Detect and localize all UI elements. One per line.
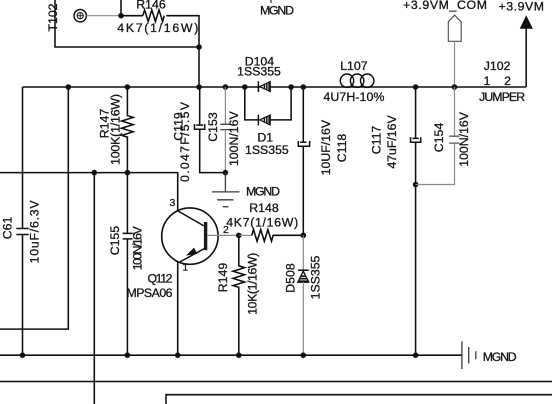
node junction at 127.4,355.2 xyxy=(125,352,131,358)
svg-text:100K(1/16W): 100K(1/16W) xyxy=(108,94,122,165)
node junction at 121,15.7 xyxy=(118,13,124,19)
node junction at 415.6,184.5 xyxy=(413,182,419,188)
net label +3.9VM xyxy=(499,0,545,13)
node junction at 225.4,87 xyxy=(223,84,229,90)
capacitor C61 xyxy=(1,87,42,355)
power flag +3.9VM_COM pentagon xyxy=(448,15,461,87)
wire top stub at x=121 xyxy=(120,0,122,16)
svg-text:L107: L107 xyxy=(340,59,368,73)
transistor Q112 xyxy=(127,197,229,300)
svg-text:3: 3 xyxy=(169,197,175,209)
power arrow +3.9VM xyxy=(520,15,533,87)
bottom bus wire y=355.2 xyxy=(0,354,462,356)
main bus wire y=87 xyxy=(23,86,527,88)
svg-text:D508: D508 xyxy=(284,263,298,293)
resistor R148 xyxy=(226,201,303,241)
node junction at 94.3,172.6 xyxy=(92,170,98,176)
node junction at 244.8,87 xyxy=(242,84,248,90)
svg-text:R149: R149 xyxy=(216,263,230,293)
resistor R146 xyxy=(117,0,198,35)
terminal jack circle xyxy=(74,10,86,22)
svg-text:10uF/6.3V: 10uF/6.3V xyxy=(27,200,41,264)
svg-text:T102: T102 xyxy=(46,3,60,31)
svg-text:J102: J102 xyxy=(484,59,511,73)
svg-text:+3.9VM: +3.9VM xyxy=(499,0,545,13)
svg-text:4U7H-10%: 4U7H-10% xyxy=(323,90,384,104)
node junction at 177.7,355.2 xyxy=(175,352,181,358)
node junction at 22.5,355.2 xyxy=(20,352,26,358)
capacitor C155 xyxy=(108,173,144,356)
svg-text:C154: C154 xyxy=(432,123,446,153)
wire bottom rail y=381.5 xyxy=(0,381,552,383)
svg-text:MGND: MGND xyxy=(246,185,280,199)
svg-text:1: 1 xyxy=(483,74,490,88)
node junction at 454.5,87 xyxy=(452,84,458,90)
wire terminal to node xyxy=(86,15,121,17)
transformer/terminal T102 label xyxy=(46,3,60,31)
svg-text:JUMPER: JUMPER xyxy=(479,90,525,104)
wire base to node xyxy=(207,234,239,236)
capacitor C117 xyxy=(370,87,421,355)
svg-text:4K7(1/16W): 4K7(1/16W) xyxy=(226,216,298,230)
svg-text:10K(1/16W): 10K(1/16W) xyxy=(245,253,259,315)
svg-text:0.047F/5.5V: 0.047F/5.5V xyxy=(178,101,192,182)
wire vertical x=94.3 xyxy=(93,173,95,404)
svg-text:MGND: MGND xyxy=(483,350,517,364)
jumper J102 xyxy=(479,59,525,104)
capacitor C154 xyxy=(416,87,471,185)
svg-text:10UF/16V: 10UF/16V xyxy=(319,119,333,175)
svg-text:2: 2 xyxy=(504,74,511,88)
svg-text:+3.9VM_COM: +3.9VM_COM xyxy=(403,0,487,12)
node junction at 238.8,355.2 xyxy=(236,352,242,358)
node junction at 225.4,172.6 xyxy=(223,170,229,176)
wire emitter down xyxy=(177,262,179,356)
ground MGND top stub xyxy=(260,0,294,18)
resistor R149 xyxy=(216,235,260,355)
node junction at 415.6,87 xyxy=(413,84,419,90)
svg-text:R146: R146 xyxy=(136,0,166,11)
svg-text:4K7(1/16W): 4K7(1/16W) xyxy=(117,21,198,35)
svg-text:R148: R148 xyxy=(249,201,279,215)
capacitor C118 xyxy=(298,87,349,235)
node junction at 199,87 xyxy=(196,84,202,90)
inductor L107 xyxy=(323,59,384,104)
node junction at 127.4,172.6 xyxy=(125,170,131,176)
diode D104 xyxy=(237,54,281,92)
svg-text:100N/16V: 100N/16V xyxy=(131,226,145,271)
node junction at 303.3,87 xyxy=(301,84,307,90)
node junction at 199,47 xyxy=(196,44,202,50)
svg-text:1SS355: 1SS355 xyxy=(309,255,323,299)
node junction at 127.4,87 xyxy=(125,84,131,90)
svg-text:100N/16V: 100N/16V xyxy=(227,111,241,166)
diode D508 xyxy=(284,235,323,355)
node junction at 303.3,235.4 xyxy=(301,233,307,239)
wire x=68.3 down and left xyxy=(0,87,68,329)
svg-text:100N/16V: 100N/16V xyxy=(457,111,471,166)
svg-text:1: 1 xyxy=(182,261,188,273)
node junction at 415.6,355.2 xyxy=(413,352,419,358)
svg-text:C155: C155 xyxy=(108,226,122,256)
svg-text:47uF/16V: 47uF/16V xyxy=(385,115,399,169)
ground MGND right xyxy=(462,341,517,369)
node junction at 238.8,235.4 xyxy=(236,233,242,239)
wire rail y=172.6 to collector xyxy=(0,173,178,211)
net label +3.9VM_COM xyxy=(403,0,487,12)
svg-text:C153: C153 xyxy=(206,112,220,142)
wire R146 to corner xyxy=(166,16,199,87)
svg-text:MPSA06: MPSA06 xyxy=(127,286,173,300)
capacitor C153 xyxy=(206,87,241,173)
node junction at 68.3,87 xyxy=(66,84,72,90)
svg-text:Q112: Q112 xyxy=(148,271,173,285)
wire T102 left leg xyxy=(55,0,199,47)
wire node to R146 xyxy=(121,15,143,17)
diode D1 with loop wires xyxy=(245,87,291,157)
ground MGND middle xyxy=(212,173,280,207)
node junction at 303.3,355.2 xyxy=(301,352,307,358)
svg-text:1SS355: 1SS355 xyxy=(245,143,289,157)
wire bottom box outline xyxy=(166,395,552,404)
svg-text:1SS355: 1SS355 xyxy=(237,65,281,79)
node junction at 291.1,87 xyxy=(288,84,294,90)
svg-text:C117: C117 xyxy=(370,126,384,155)
svg-text:C61: C61 xyxy=(1,217,15,240)
resistor R147 xyxy=(97,87,133,173)
svg-text:C118: C118 xyxy=(335,134,349,163)
capacitor C119 xyxy=(171,87,225,182)
svg-text:MGND: MGND xyxy=(260,4,294,18)
